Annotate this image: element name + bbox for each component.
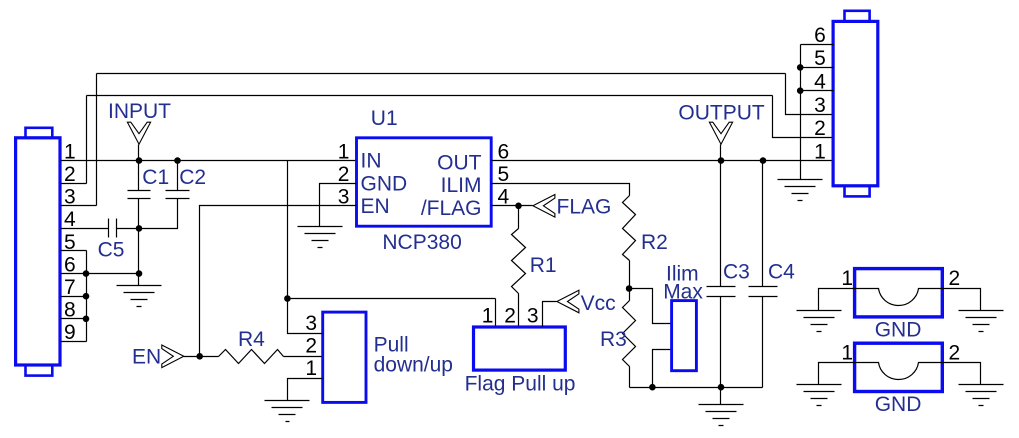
resistor R2 [623, 196, 668, 261]
wire R1 top lead [518, 206, 520, 229]
wire J1 pin3 stub [61, 205, 97, 207]
svg-text:C5: C5 [98, 238, 125, 261]
wire top bus pin2 to right pin2 [87, 95, 773, 97]
ground J2 [778, 180, 823, 201]
svg-text:ILIM: ILIM [441, 174, 482, 197]
svg-text:OUTPUT: OUTPUT [678, 102, 765, 125]
ground U1 [298, 227, 343, 248]
U1 pin name IN [361, 150, 382, 173]
U1 pin name /FLAG [421, 197, 482, 220]
wire VIN branch down [287, 161, 289, 299]
Flag pullup pin 2 number [504, 305, 516, 328]
wire J2 pin4 stub [801, 90, 834, 92]
Pull block pin 2 number [305, 334, 317, 357]
resistor R4 [219, 328, 284, 363]
J1 pin 4 number [64, 208, 76, 231]
wire J2 pin5 stub [801, 67, 834, 69]
resistor R1 [512, 229, 557, 294]
wire U1 GND pin [320, 184, 357, 227]
label Max [663, 280, 703, 303]
wire C-junction to ground [138, 229, 140, 286]
junction J2 pin5 ladder [797, 64, 804, 71]
J2 pin 3 number [814, 94, 826, 117]
label NCP380 [382, 231, 461, 254]
wire R3 top lead [629, 289, 631, 301]
svg-text:Flag Pull up: Flag Pull up [465, 372, 576, 395]
wire U1 OUT to right connector pin1 [492, 160, 834, 162]
svg-text:GND: GND [875, 318, 922, 341]
svg-text:INPUT: INPUT [108, 100, 171, 123]
Pull block pin 3 number [305, 312, 317, 335]
svg-text:3: 3 [305, 312, 317, 335]
port arrow OUTPUT [709, 122, 732, 144]
label EN [132, 346, 161, 369]
U1 pin 3 number [338, 186, 350, 209]
GND block 1 pin 1 number [841, 267, 853, 290]
svg-text:GND: GND [361, 173, 408, 196]
J2 pin 6 number [814, 24, 826, 47]
junction R2 R3 node [626, 285, 633, 292]
svg-text:R1: R1 [530, 254, 557, 277]
wire right pin2 drop [773, 96, 834, 138]
svg-text:down/up: down/up [374, 354, 453, 377]
wire R2 bottom lead [629, 261, 631, 289]
GND block 1 pin 2 number [949, 267, 961, 290]
svg-text:IN: IN [361, 150, 382, 173]
junction J1 pin8 ladder [83, 316, 90, 323]
wire J1 pin1 to U1 IN (net VIN) [61, 160, 357, 162]
connector J1 (left, 9-pin) [16, 128, 60, 376]
junction ground bus [718, 384, 725, 391]
svg-text:/FLAG: /FLAG [421, 197, 482, 220]
svg-text:EN: EN [361, 195, 390, 218]
svg-text:4: 4 [64, 208, 76, 231]
wire U1 pin5 to R2 [492, 184, 630, 196]
svg-text:1: 1 [841, 267, 853, 290]
svg-text:U1: U1 [371, 107, 398, 130]
svg-text:2: 2 [814, 117, 826, 140]
label Vcc [581, 292, 616, 315]
svg-text:6: 6 [814, 24, 826, 47]
wire J2 ground ladder [800, 45, 802, 180]
wire GND block 1 pin1 [819, 289, 855, 311]
component Flag Pull up body [474, 327, 566, 370]
wire VIN node to flag pullup pin1 [288, 299, 496, 327]
wire EN arrow to junction [184, 356, 219, 358]
capacitor C2 [139, 161, 207, 229]
U1 pin name ILIM [441, 174, 482, 197]
wire J1 pin7 stub [61, 296, 87, 298]
junction FLAG R1 [515, 203, 522, 210]
label GND block 1 [875, 318, 922, 341]
J1 pin 3 number [64, 186, 76, 209]
svg-text:1: 1 [482, 305, 494, 328]
wire J1 pin2 riser [86, 96, 88, 184]
svg-text:5: 5 [498, 163, 510, 186]
wire R1 bottom lead [518, 294, 520, 327]
svg-text:2: 2 [949, 342, 961, 365]
J2 pin 5 number [814, 47, 826, 70]
label down/up [374, 354, 453, 377]
port arrow EN [162, 345, 184, 368]
Pull block pin 1 number [305, 357, 317, 380]
J1 pin 6 number [64, 253, 76, 276]
J1 pin 9 number [64, 321, 76, 344]
wire R3 bottom lead [629, 367, 631, 388]
svg-text:1: 1 [814, 140, 826, 163]
U1 pin 6 number [498, 140, 510, 163]
svg-text:3: 3 [814, 94, 826, 117]
junction VIN C2 [174, 157, 181, 164]
ground GND block 1 pin1 [797, 311, 842, 332]
port arrow FLAG [533, 195, 555, 218]
wire J1 ground ladder [86, 251, 88, 342]
svg-text:2: 2 [305, 334, 317, 357]
port arrow INPUT [127, 122, 150, 144]
wire J1 pin6 stub [61, 273, 139, 275]
wire Ilim Max upper pin [630, 289, 672, 324]
svg-text:EN: EN [132, 346, 161, 369]
connector GND block 2 [855, 343, 943, 391]
wire Ilim Max lower pin [653, 350, 672, 388]
J1 pin 5 number [64, 231, 76, 254]
wire GND block 2 pin2 [943, 363, 981, 385]
svg-text:C1: C1 [142, 166, 169, 189]
U1 pin name GND [361, 173, 408, 196]
svg-text:OUT: OUT [437, 151, 482, 174]
component Ilim Max body [672, 301, 697, 371]
svg-text:5: 5 [814, 47, 826, 70]
svg-text:1: 1 [338, 140, 350, 163]
label Pull [374, 334, 409, 357]
wire pull pin3 to VIN branch [288, 299, 323, 334]
svg-text:2: 2 [949, 267, 961, 290]
svg-text:FLAG: FLAG [557, 195, 612, 218]
resistor R3 [600, 301, 636, 367]
wire J1 pin8 stub [61, 318, 87, 320]
ground GND block 2 pin1 [797, 385, 842, 406]
J1 pin 8 number [64, 299, 76, 322]
svg-text:C4: C4 [768, 261, 795, 284]
svg-text:C2: C2 [179, 166, 206, 189]
wire U1 EN pin [200, 206, 357, 357]
wire J1 pin2 stub [61, 183, 87, 185]
junction VIN C1 [136, 157, 143, 164]
label FLAG [557, 195, 612, 218]
wire ground bus stem [720, 388, 722, 405]
wire bottom ground bus [630, 387, 763, 389]
svg-text:C3: C3 [723, 261, 750, 284]
label GND block 2 [875, 393, 922, 416]
U1 pin name OUT [437, 151, 482, 174]
U1 pin 5 number [498, 163, 510, 186]
wire right pin3 drop [786, 74, 834, 115]
label OUTPUT [678, 102, 765, 125]
junction pin6 ground [136, 270, 143, 277]
wire J2 pin6 stub [801, 44, 834, 46]
capacitor C3 [707, 161, 750, 388]
wire J1 pin4 to C5 [61, 228, 109, 230]
svg-text:NCP380: NCP380 [382, 231, 461, 254]
capacitor C4 [749, 161, 796, 388]
ground input filter [117, 286, 162, 307]
svg-text:7: 7 [64, 276, 76, 299]
label Ilim [666, 262, 699, 285]
svg-text:2: 2 [504, 305, 516, 328]
connector J2 (right, 6-pin) [833, 11, 878, 197]
GND block 2 pin 1 number [841, 342, 853, 365]
svg-text:Vcc: Vcc [581, 292, 616, 315]
ground pull block [265, 401, 310, 422]
J1 pin 2 number [64, 163, 76, 186]
svg-text:R4: R4 [238, 328, 265, 351]
op-amp U1 NCP380 body [357, 138, 492, 226]
junction J2 pin4 ladder [797, 87, 804, 94]
svg-text:Max: Max [663, 280, 703, 303]
junction Ilim bottom [649, 384, 656, 391]
GND block 2 pin 2 number [949, 342, 961, 365]
capacitor C1 [128, 161, 170, 229]
junction VIN pull node [284, 295, 291, 302]
wire GND block 1 pin2 [943, 289, 981, 311]
svg-text:9: 9 [64, 321, 76, 344]
junction C1 C2 C5 [136, 225, 143, 232]
junction OUT C3 [718, 157, 725, 164]
connector GND block 1 [855, 269, 943, 317]
label U1 [371, 107, 398, 130]
wire OUTPUT stem [720, 145, 722, 161]
wire pull pin1 to ground [288, 379, 323, 401]
svg-text:R3: R3 [600, 328, 627, 351]
label Flag Pull up [465, 372, 576, 395]
junction OUT C4 [760, 157, 767, 164]
J2 pin 4 number [814, 71, 826, 94]
U1 pin name EN [361, 195, 390, 218]
Flag pullup pin 1 number [482, 305, 494, 328]
svg-text:1: 1 [305, 357, 317, 380]
svg-text:3: 3 [527, 305, 539, 328]
wire INPUT stem [138, 145, 140, 161]
wire U1 pin4 to FLAG [492, 205, 533, 207]
ground GND block 1 pin2 [959, 311, 1004, 332]
Flag pullup pin 3 number [527, 305, 539, 328]
J1 pin 7 number [64, 276, 76, 299]
svg-text:GND: GND [875, 393, 922, 416]
capacitor C5 [98, 219, 139, 262]
svg-text:2: 2 [64, 163, 76, 186]
J2 pin 2 number [814, 117, 826, 140]
component Pull down/up body [323, 312, 366, 402]
ground GND block 2 pin2 [959, 385, 1004, 406]
wire R4 to pull block pin2 [284, 356, 323, 358]
U1 pin 2 number [338, 163, 350, 186]
J2 pin 1 number [814, 140, 826, 163]
J1 pin 1 number [64, 140, 76, 163]
svg-text:2: 2 [338, 163, 350, 186]
svg-text:R2: R2 [641, 231, 668, 254]
wire flag pullup pin3 to Vcc [543, 302, 557, 327]
U1 pin 1 number [338, 140, 350, 163]
port arrow Vcc [557, 290, 579, 313]
junction J1 pin7 ladder [83, 293, 90, 300]
wire J1 pin9 stub [61, 341, 87, 343]
ground output bus [699, 405, 744, 426]
wire top bus pin3 to right pin3 [97, 73, 786, 75]
label INPUT [108, 100, 171, 123]
junction J1 pin6 ladder [83, 270, 90, 277]
wire J1 pin5 stub [61, 250, 87, 252]
wire J1 pin3 riser [96, 74, 98, 206]
U1 pin 4 number [498, 186, 510, 209]
wire GND block 2 pin1 [819, 363, 855, 385]
svg-text:1: 1 [841, 342, 853, 365]
junction EN node [196, 353, 203, 360]
